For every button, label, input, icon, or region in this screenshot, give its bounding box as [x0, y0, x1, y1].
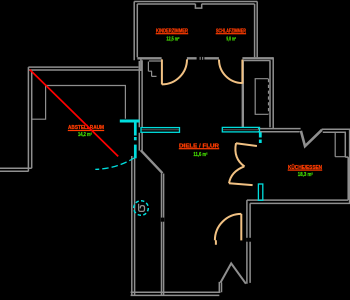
V notch	[301, 130, 322, 146]
right room top wall right part	[322, 129, 350, 132]
wall top-room top inner	[137, 3, 254, 5]
room L left wall band	[139, 60, 142, 127]
cyan T horizontal	[120, 120, 140, 123]
wall E vertical	[247, 200, 250, 284]
right room right wall	[345, 129, 349, 203]
window bar 2	[222, 127, 259, 131]
left outer wall	[28, 67, 31, 171]
svg-text:12,5 m²: 12,5 m²	[166, 37, 179, 43]
door 1 arc	[162, 59, 187, 84]
closet rect	[255, 79, 268, 115]
wall D vertical	[242, 60, 244, 127]
wall joint left of room L	[139, 60, 141, 72]
right room bottom wall	[247, 200, 350, 203]
black tick on hall wall 2	[161, 218, 165, 222]
room L left wall below window	[139, 133, 142, 151]
right room top wall left part	[258, 129, 301, 132]
wall C vertical	[270, 57, 273, 128]
svg-text:18,3 m²: 18,3 m²	[298, 172, 313, 178]
faint wall line through windows	[142, 129, 260, 131]
mullion tick 2	[202, 57, 203, 60]
black tick on wall E	[246, 238, 251, 242]
door 1 leaf	[161, 59, 163, 84]
svg-text:9,8 m²: 9,8 m²	[226, 37, 236, 43]
bottom-left wall	[0, 168, 32, 171]
wall top-room bottom band	[137, 57, 273, 59]
hall wall 1	[132, 156, 135, 295]
step up right of bottom wall	[219, 282, 221, 292]
cyan dashes below window bar 2	[259, 132, 262, 137]
double door leaf B	[229, 183, 253, 185]
cyan vertical door line	[134, 121, 137, 136]
hall bottom wall	[131, 292, 221, 295]
niche in right room corner	[335, 132, 345, 157]
double door leaf A	[236, 143, 257, 146]
double door arc B	[229, 166, 244, 183]
svg-text:14,2 m²: 14,2 m²	[78, 132, 92, 138]
stair steps glyph	[148, 62, 156, 77]
spiral glyph	[139, 204, 145, 212]
wall top-room right	[255, 2, 258, 58]
wall top-room top outer	[134, 1, 257, 3]
door 2 leaf	[241, 60, 243, 84]
mullion tick 1	[200, 57, 201, 60]
wall top-room left	[134, 2, 137, 61]
left room inner parapet line	[32, 86, 126, 120]
hall top wall	[28, 67, 141, 70]
door 3 leaf	[240, 214, 242, 241]
closet dashed opening	[268, 79, 270, 114]
door 2 arc	[219, 60, 242, 83]
hall wall 2	[162, 174, 164, 296]
cyan vertical door line lower solid	[134, 145, 137, 159]
window bar 1	[141, 128, 180, 133]
svg-text:11,6 m²: 11,6 m²	[193, 152, 207, 158]
cyan door bar right room	[258, 184, 262, 200]
spiral outlet circle	[134, 201, 149, 216]
wall top-room bottom aux line	[149, 60, 270, 62]
black textured break on top-room bottom wall	[197, 57, 205, 61]
door 3 arc	[215, 214, 241, 245]
niche chimney box top wall	[195, 4, 201, 8]
diagonal hall wall	[141, 150, 163, 173]
tent notch	[220, 263, 246, 283]
double door arc A	[235, 143, 244, 166]
cyan dashed swing arc	[95, 158, 135, 170]
cyan vertical door line dashed part	[134, 137, 137, 140]
red annotation diagonal line	[30, 70, 118, 157]
